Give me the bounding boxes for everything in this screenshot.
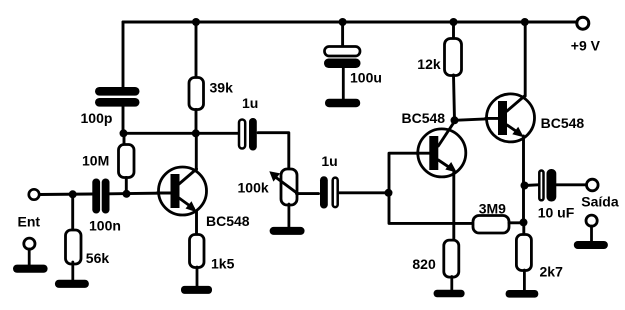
node rail/39k: [192, 18, 200, 26]
wire 1u to pot: [258, 133, 289, 170]
svg-text:10M: 10M: [82, 152, 109, 168]
svg-text:12k: 12k: [417, 56, 441, 72]
wire Q1 collector: [195, 133, 198, 170]
wire rail drop to 100p: [122, 22, 125, 88]
wire 12k bottom stem: [454, 75, 455, 120]
svg-text:39k: 39k: [210, 80, 234, 96]
wire 100n to Q1 base: [110, 192, 173, 196]
ground 100u: [325, 99, 360, 108]
terminal +9V: [577, 17, 589, 29]
ground 820: [434, 290, 465, 298]
wire 820 bottom stem: [450, 277, 453, 292]
terminal Saida: [587, 179, 599, 191]
wire input to 100n: [40, 193, 93, 196]
svg-text:1u: 1u: [242, 95, 258, 111]
ground 2k7: [506, 290, 539, 298]
capacitor 100u: [324, 22, 361, 100]
wire pot bottom stem: [287, 204, 290, 228]
ground 56k: [55, 280, 89, 288]
ground input connector: [13, 238, 48, 273]
ground output connector: [574, 215, 608, 249]
svg-text:1k5: 1k5: [211, 255, 235, 271]
resistor 1k5: [190, 235, 205, 268]
ground pot: [270, 227, 305, 235]
capacitor C3 1u: [320, 176, 338, 208]
wire top supply rail: [123, 21, 577, 24]
svg-text:Saída: Saída: [581, 194, 619, 210]
wire output branch: [525, 183, 539, 187]
node 100p/10M: [120, 129, 128, 137]
svg-text:BC548: BC548: [206, 213, 250, 229]
wire Q2 emitter: [452, 172, 455, 241]
wire 2k7 top stem: [522, 222, 525, 235]
svg-text:56k: 56k: [86, 250, 110, 266]
wire 10M bottom stem: [125, 178, 128, 194]
wire 12k top stem: [452, 22, 455, 39]
transistor Q2: [417, 121, 466, 177]
potentiometer 100k: [269, 169, 298, 205]
resistor 10M: [119, 145, 135, 178]
node rail/12k: [450, 18, 458, 26]
node output cap branch: [521, 182, 529, 190]
svg-text:+9 V: +9 V: [571, 37, 601, 53]
wire 56k top stem: [71, 194, 74, 230]
node 3M9/2k7: [520, 218, 528, 226]
svg-text:10 uF: 10 uF: [538, 204, 575, 220]
node input/56k: [69, 190, 77, 198]
node Q2 base junction: [385, 189, 393, 197]
resistor 39k: [189, 78, 204, 110]
wire Q3 collector: [524, 22, 527, 96]
svg-text:100k: 100k: [238, 180, 269, 196]
node rail/100u: [339, 18, 347, 26]
svg-text:100n: 100n: [89, 217, 121, 233]
node 12k/Q3 base: [451, 116, 459, 124]
resistor 3M9: [473, 216, 509, 234]
wire 3M9 right stem: [509, 221, 524, 224]
svg-text:100u: 100u: [350, 70, 382, 86]
wire Q3 emitter: [522, 136, 525, 223]
svg-text:Ent: Ent: [18, 213, 41, 229]
wire 1u to Q2 node: [340, 191, 389, 194]
wire 10M top stem: [123, 133, 126, 145]
resistor 12k: [445, 39, 462, 76]
wire pot wiper to 1u: [297, 192, 319, 195]
svg-text:BC548: BC548: [541, 115, 585, 131]
node 39k/collector: [192, 129, 200, 137]
resistor 2k7: [516, 235, 531, 271]
transistor Q3: [486, 94, 535, 142]
node rail/Q3 collector: [521, 18, 529, 26]
wire Q1 emitter: [195, 211, 198, 235]
wire 1k5 bottom stem: [196, 267, 199, 287]
wire 39k bottom stem: [195, 110, 198, 134]
transistor Q1: [157, 167, 207, 215]
svg-text:820: 820: [412, 256, 436, 272]
wire 10uF to output: [557, 183, 587, 186]
ground 1k5: [181, 286, 212, 294]
wire Q2 base riser: [389, 153, 431, 193]
wire 100p bottom to node: [122, 106, 125, 133]
terminal Ent input: [29, 189, 39, 199]
resistor 820: [444, 240, 459, 277]
wire feedback run to 3M9: [389, 193, 473, 224]
capacitor 100n: [92, 179, 109, 214]
svg-text:3M9: 3M9: [479, 200, 506, 216]
resistor 56k: [66, 230, 82, 264]
svg-text:BC548: BC548: [402, 110, 446, 126]
wire 56k bottom stem: [71, 262, 74, 281]
wire Q3 base: [455, 118, 501, 120]
svg-text:2k7: 2k7: [540, 264, 564, 280]
wire 2k7 bottom stem: [523, 270, 526, 291]
node 10M/base: [123, 190, 131, 198]
wire node line y133: [123, 132, 240, 135]
capacitor 10uF: [539, 169, 556, 202]
svg-text:1u: 1u: [321, 153, 337, 169]
capacitor 100p: [95, 87, 140, 107]
wire 39k top stem: [195, 22, 198, 78]
svg-text:100p: 100p: [81, 110, 113, 126]
capacitor C2 1u: [239, 118, 257, 151]
